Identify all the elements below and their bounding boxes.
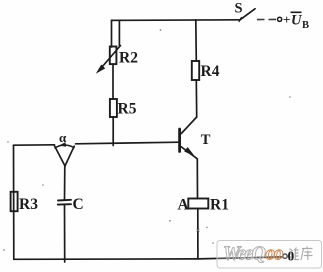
svg-text:R3: R3	[19, 196, 38, 213]
wiper arrow of R2	[99, 46, 121, 71]
relay coil A / resistor R1	[188, 199, 208, 209]
sensor arc alpha	[55, 145, 74, 148]
dashed lead to supply terminal	[257, 18, 276, 20]
wire R5 to base node	[112, 117, 114, 146]
wire emitter to relay coil	[196, 159, 198, 199]
svg-text:S: S	[235, 1, 243, 17]
wire capacitor to bottom bus	[64, 205, 66, 263]
capacitor C bottom plate	[58, 203, 71, 205]
wire coil to bottom bus	[197, 209, 199, 259]
transistor T emitter lead	[181, 147, 198, 159]
resistor R3	[11, 192, 18, 211]
svg-text:WeeQ: WeeQ	[223, 244, 266, 265]
svg-text:B: B	[302, 20, 309, 31]
sensor triangle alpha	[54, 146, 74, 166]
svg-text:R2: R2	[119, 50, 138, 67]
switch S contact tick	[239, 18, 242, 22]
svg-text:+: +	[283, 12, 290, 27]
wire R4 to collector	[195, 80, 197, 117]
wire R4 branch from top bus	[195, 20, 198, 61]
wire bottom bus	[14, 257, 282, 259]
transistor T emitter arrow	[185, 148, 194, 156]
scan noise specks	[3, 29, 291, 251]
svg-text:R5: R5	[118, 101, 137, 118]
svg-text:R1: R1	[210, 197, 229, 214]
wire top horizontal bus	[112, 19, 241, 22]
switch S blade	[240, 9, 255, 20]
resistor R5	[110, 99, 117, 117]
resistor R4	[192, 61, 199, 80]
terminal circle +UB	[278, 17, 282, 21]
resistor R2	[110, 47, 117, 65]
svg-text:C: C	[73, 196, 84, 213]
transistor T collector lead	[181, 117, 196, 134]
terminal circle 0	[283, 254, 287, 258]
svg-text:oo: oo	[266, 244, 284, 265]
capacitor C top plate	[58, 199, 71, 202]
wire R2 branch left edge	[111, 20, 113, 47]
overline of UB	[291, 11, 302, 13]
transistor T base bar	[178, 129, 181, 152]
svg-text:T: T	[201, 132, 211, 148]
wire alpha apex to capacitor	[64, 166, 66, 200]
svg-text:R4: R4	[201, 63, 220, 80]
wire R2 branch right edge	[118, 20, 120, 46]
watermark hanzi wei	[289, 248, 300, 261]
svg-text:α: α	[59, 130, 67, 145]
wire node to alpha sensor left	[14, 144, 55, 146]
wire alpha sensor to transistor base	[76, 142, 180, 144]
watermark box	[217, 241, 322, 269]
watermark hanzi ku	[301, 247, 313, 261]
wire left branch top corner	[13, 145, 15, 259]
svg-text:0: 0	[288, 248, 295, 263]
wire R2 to R5	[112, 64, 114, 99]
svg-text:A: A	[178, 197, 190, 214]
